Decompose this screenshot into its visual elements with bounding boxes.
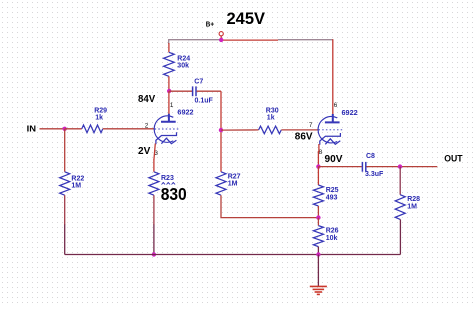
junction B+ on rail (219, 38, 223, 42)
svg-text:830: 830 (161, 184, 187, 204)
junction ground rail to ground (316, 252, 320, 256)
wire R25 to mid node (317, 206, 319, 218)
svg-text:1M: 1M (407, 204, 417, 211)
triode V1a envelope arc (154, 116, 173, 142)
junction riser to R30 row (219, 128, 223, 132)
triode V2 envelope arc (318, 117, 337, 143)
node B+ terminal circle (219, 32, 223, 36)
svg-text:6: 6 (334, 102, 338, 109)
svg-text:2: 2 (145, 123, 149, 130)
svg-text:1M: 1M (71, 183, 81, 190)
svg-text:30k: 30k (177, 62, 189, 69)
svg-text:R25: R25 (326, 187, 339, 194)
triode V1a grid (dashed) (155, 128, 180, 130)
wire R26 to ground rail (317, 247, 319, 255)
triode V1a heater (161, 138, 176, 144)
junction IN node (62, 127, 66, 131)
triode V1a cathode (156, 132, 177, 144)
wire V2 plate riser (332, 39, 334, 114)
svg-text:R29: R29 (94, 108, 107, 115)
wire mid node to R26 (317, 218, 319, 226)
wire ground stem (317, 255, 319, 287)
wire R24 bottom lead (168, 76, 170, 91)
resistor R24 (164, 52, 175, 76)
junction OUT node (398, 164, 402, 168)
svg-text:R22: R22 (71, 176, 84, 183)
wire R23 bottom lead lower (153, 225, 155, 255)
resistor R29 (82, 125, 103, 133)
wire C7 to riser (197, 90, 221, 92)
resistor R25 (313, 185, 323, 206)
label R23 original value (obscured) (162, 183, 176, 185)
wire top rail left segment (169, 40, 220, 44)
svg-text:C8: C8 (366, 153, 375, 160)
wire R23 bottom lead upper (153, 195, 155, 225)
wire cathode node to C8 (318, 166, 361, 168)
svg-text:1M: 1M (228, 180, 238, 187)
junction R24/C7/plate node (167, 89, 171, 93)
triode V1a plate lead wire (168, 91, 170, 114)
capacitor C7 (192, 86, 194, 96)
svg-text:1k: 1k (95, 115, 103, 122)
svg-text:90V: 90V (325, 154, 343, 165)
wire R22 bottom lead lower (64, 225, 66, 255)
wire R24 top lead (168, 43, 170, 52)
svg-text:493: 493 (326, 194, 338, 201)
svg-text:3.3uF: 3.3uF (365, 171, 384, 178)
wire C8 to OUT (366, 166, 437, 168)
triode V2 cathode (320, 133, 341, 145)
junction V2 cathode node (316, 164, 320, 168)
svg-text:7: 7 (309, 122, 313, 129)
svg-text:C7: C7 (194, 78, 203, 85)
svg-text:OUT: OUT (444, 153, 463, 163)
svg-text:6922: 6922 (342, 110, 358, 117)
wire node to R25 (317, 167, 319, 185)
svg-text:1k: 1k (267, 115, 275, 122)
junction R25/R26/R27 node (316, 215, 320, 219)
svg-text:0.1uF: 0.1uF (195, 97, 214, 104)
svg-text:R24: R24 (177, 55, 190, 62)
svg-text:R28: R28 (407, 196, 420, 203)
triode V2 heater (325, 139, 340, 145)
junction R23 on ground rail (152, 252, 156, 256)
svg-text:R30: R30 (266, 108, 279, 115)
wire R28 bottom lead (399, 219, 401, 254)
wire down to node (317, 151, 319, 167)
wire R22 bottom lead upper (64, 195, 66, 225)
svg-text:2V: 2V (138, 146, 151, 157)
svg-text:R26: R26 (326, 228, 339, 235)
wire C7 riser down to R27 (220, 91, 222, 172)
wire junction to R29 (65, 128, 82, 130)
resistor R22 (60, 172, 70, 195)
triode V2 grid (dashed) (319, 129, 344, 131)
resistor R28 (395, 195, 405, 220)
wire V1 cathode lead (154, 144, 155, 161)
resistor R23 (149, 172, 159, 195)
capacitor C8 (361, 162, 363, 172)
svg-text:84V: 84V (138, 94, 156, 105)
wire R27 bottom to R25/R26 node (221, 195, 318, 217)
resistor R26 (313, 226, 323, 247)
svg-text:R27: R27 (228, 173, 241, 180)
wire ground rail (65, 254, 401, 256)
svg-text:86V: 86V (295, 131, 313, 142)
wire OUT node down to R28 (399, 167, 401, 195)
resistor R30 (259, 126, 282, 134)
wire V2 cathode lead (318, 144, 320, 152)
wire to R23 (153, 160, 155, 172)
wire node to C7 (169, 90, 192, 92)
svg-text:B+: B+ (206, 21, 214, 28)
svg-text:245V: 245V (227, 9, 266, 28)
ground (310, 286, 327, 294)
svg-text:1: 1 (170, 102, 174, 109)
wire top rail B+ segment (220, 39, 278, 41)
wire riser to R30 (221, 129, 259, 131)
svg-text:IN: IN (27, 123, 36, 133)
wire IN to junction (40, 128, 65, 130)
wire R30 to V2 grid (281, 129, 317, 131)
wire top rail right segment (278, 39, 333, 41)
wire IN node down to R22 (64, 129, 66, 172)
wire B+ stem (220, 36, 222, 40)
triode V1a plate structure (161, 114, 176, 122)
resistor R27 (216, 172, 226, 195)
triode V2 plate structure (325, 114, 340, 122)
svg-text:10k: 10k (326, 235, 338, 242)
svg-text:6922: 6922 (177, 109, 193, 116)
svg-text:R23: R23 (161, 175, 174, 182)
wire R29 to V1 grid (103, 128, 154, 130)
